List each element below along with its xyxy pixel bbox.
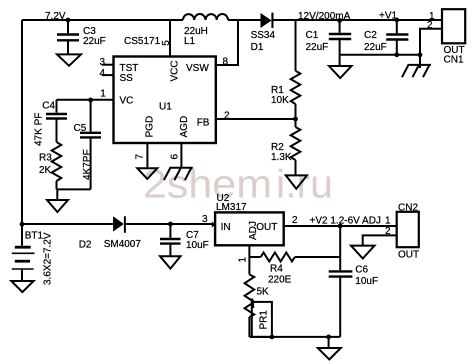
wire rail L1 to D1 <box>228 19 261 21</box>
wire AGD pin6 stub <box>180 143 182 168</box>
wire VC pin1 <box>57 99 114 101</box>
capacitor C7 plates <box>160 238 181 240</box>
ground under PGD <box>137 168 157 179</box>
capacitor C3 leads <box>67 20 69 33</box>
node 7.2V/C3 <box>66 18 71 23</box>
capacitor C4 leads <box>56 100 58 113</box>
wire CN1 pin2 <box>420 29 442 55</box>
svg-text:47K PF: 47K PF <box>34 113 45 146</box>
svg-text:CS5171: CS5171 <box>124 36 161 47</box>
chassis ground CN1 <box>402 55 431 77</box>
svg-text:SM4007: SM4007 <box>104 239 142 250</box>
wire D2 to U2 <box>126 223 215 225</box>
svg-text:7: 7 <box>135 154 146 160</box>
arrow into U2 IN pin <box>212 221 216 227</box>
wire left vertical <box>21 20 23 225</box>
svg-text:R4: R4 <box>270 263 283 274</box>
svg-text:22uF: 22uF <box>306 42 329 53</box>
capacitor C5 plates <box>80 132 101 134</box>
svg-text:3: 3 <box>100 57 106 68</box>
svg-text:22uF: 22uF <box>364 42 387 53</box>
svg-text:+V2 1.2-6V ADJ: +V2 1.2-6V ADJ <box>310 216 381 227</box>
wire bottom rail C1-C2-CN1pin2 <box>340 54 420 56</box>
capacitor C7 leads <box>169 224 171 238</box>
resistor R2 <box>291 127 301 160</box>
node C2 bottom <box>394 52 399 57</box>
wire VSW pin8 branch <box>216 20 238 65</box>
node C7 <box>168 222 173 227</box>
node 12V/C1 <box>337 18 342 23</box>
capacitor C3 plates <box>46 34 408 277</box>
svg-text:C2: C2 <box>364 30 377 41</box>
capacitor C2 leads <box>396 20 398 33</box>
svg-text:D2: D2 <box>79 240 92 251</box>
inductor L1 <box>183 14 228 20</box>
svg-text:FB: FB <box>197 117 210 128</box>
svg-text:VCC: VCC <box>170 60 181 81</box>
ground stem under R3/C5 <box>56 189 58 200</box>
capacitor C1 plates <box>329 33 351 35</box>
svg-text:+V1: +V1 <box>379 11 398 22</box>
svg-text:C1: C1 <box>306 30 319 41</box>
svg-text:OUT: OUT <box>398 250 419 261</box>
svg-text:BT1: BT1 <box>25 230 44 241</box>
svg-text:5K: 5K <box>257 287 270 298</box>
resistor R4 <box>261 253 295 262</box>
svg-text:1: 1 <box>385 216 391 227</box>
capacitor C5 leads <box>90 100 92 132</box>
ground under C3 <box>57 54 81 65</box>
svg-text:VC: VC <box>120 96 134 107</box>
wire C6 top lead <box>339 226 341 270</box>
ground bottom <box>318 348 341 360</box>
resistor R1 <box>291 71 301 104</box>
svg-text:VSW: VSW <box>186 63 209 74</box>
svg-text:6: 6 <box>170 154 181 160</box>
diode D1 <box>113 13 273 233</box>
node FB/R1/R2 <box>293 117 298 122</box>
node +V2/C6 <box>338 224 343 229</box>
svg-text:2: 2 <box>427 20 433 31</box>
svg-text:L1: L1 <box>184 36 196 47</box>
wire R3 bottom lead <box>56 181 58 189</box>
svg-text:5: 5 <box>161 40 172 46</box>
node CN1 pin2 gnd <box>418 52 423 57</box>
node +V1/C2 <box>394 18 399 23</box>
svg-text:CN1: CN1 <box>444 55 464 66</box>
IC U2 box <box>215 212 284 245</box>
svg-text:U1: U1 <box>159 101 172 112</box>
wire ADJ pin1 stub <box>248 245 250 257</box>
svg-text:8: 8 <box>223 57 229 68</box>
wire bottom R3-C5 <box>57 188 91 190</box>
svg-text:1: 1 <box>238 257 249 263</box>
ground under C7 <box>160 256 181 268</box>
svg-text:22uF: 22uF <box>83 36 106 47</box>
svg-text:AGD: AGD <box>179 116 190 138</box>
pin stub 3 TST <box>102 64 114 66</box>
svg-text:1: 1 <box>100 89 106 100</box>
svg-text:CN2: CN2 <box>398 202 418 213</box>
wire PR1 top lead <box>248 257 250 275</box>
svg-text:C5: C5 <box>74 123 87 134</box>
wire PGD pin7 stub <box>146 143 148 168</box>
ground under C1 <box>329 66 352 78</box>
wire rail D1 to CN1 <box>272 19 442 21</box>
connector CN2 box <box>397 212 419 247</box>
svg-text:PGD: PGD <box>145 116 156 138</box>
capacitor C4 plates <box>46 113 67 115</box>
capacitor C2 plates <box>386 33 408 35</box>
svg-text:7.2V: 7.2V <box>45 11 66 22</box>
wire PR1 bottom lead <box>248 317 250 337</box>
svg-text:LM317: LM317 <box>216 202 247 213</box>
wire R1 top lead <box>295 20 297 71</box>
diode D2 <box>113 216 124 231</box>
wire FB pin2 <box>216 118 296 120</box>
ground stem bottom <box>328 337 330 348</box>
svg-text:2: 2 <box>292 215 298 226</box>
ground under CN2 pin2 <box>351 246 375 259</box>
wire top rail left <box>22 19 183 21</box>
ground under R3 <box>47 200 68 212</box>
svg-text:R3: R3 <box>39 153 52 164</box>
resistor R3 <box>52 142 62 181</box>
svg-text:C4: C4 <box>42 101 55 112</box>
svg-text:D1: D1 <box>251 42 264 53</box>
wire battery to D2 <box>22 223 114 225</box>
svg-text:10uF: 10uF <box>186 240 209 251</box>
potentiometer PR1 box <box>252 302 272 337</box>
svg-text:12V/200mA: 12V/200mA <box>298 11 351 22</box>
potentiometer PR1 wiper tick <box>252 299 253 309</box>
wire R2 top lead <box>295 119 297 127</box>
svg-text:2: 2 <box>224 111 230 122</box>
wire CN2 pin2 <box>363 235 397 245</box>
svg-text:SS: SS <box>120 73 134 84</box>
svg-text:4K7PF: 4K7PF <box>82 149 93 180</box>
node bottom gnd <box>326 335 331 340</box>
svg-text:4: 4 <box>100 68 106 79</box>
svg-text:2K: 2K <box>39 165 52 176</box>
node PR1 bottom <box>270 335 275 340</box>
svg-text:3.6X2=7.2V: 3.6X2=7.2V <box>43 232 54 285</box>
capacitor C6 plates <box>329 270 353 272</box>
wire C6 bottom lead <box>339 278 341 337</box>
svg-text:i.ru: i.ru <box>276 163 333 207</box>
svg-text:10uF: 10uF <box>355 276 378 287</box>
node VC/C5 <box>88 98 93 103</box>
svg-text:PR1: PR1 <box>259 310 270 330</box>
svg-text:2: 2 <box>385 226 391 237</box>
ground under R2 <box>286 175 307 188</box>
wire bottom rail PR1 to C6 <box>249 336 340 338</box>
IC U1 box <box>114 57 216 144</box>
battery BT1 stem bottom <box>21 270 23 281</box>
svg-text:10K: 10K <box>271 95 289 106</box>
svg-text:OUT: OUT <box>256 222 277 233</box>
resistor R4 leads <box>249 256 260 258</box>
battery BT1 stem top <box>21 225 23 246</box>
chassis ground AGD <box>164 168 193 180</box>
connector CN1 box <box>442 9 465 43</box>
wire R1 bottom lead <box>295 104 297 119</box>
svg-text:1.3K: 1.3K <box>271 152 292 163</box>
svg-text:220E: 220E <box>268 275 292 286</box>
node BT1/D2 <box>20 222 25 227</box>
svg-text:SS34: SS34 <box>251 30 276 41</box>
capacitor C1 leads <box>339 20 341 33</box>
wire VCC drop pin5 <box>169 20 171 57</box>
ground under BT1 <box>11 281 33 292</box>
svg-text:IN: IN <box>221 222 231 233</box>
svg-text:2shem: 2shem <box>143 163 272 207</box>
wire R2 bottom lead <box>295 160 297 175</box>
svg-text:C6: C6 <box>355 264 368 275</box>
pin stub 4 SS <box>102 74 114 76</box>
battery BT1 plates <box>12 247 35 269</box>
svg-text:3: 3 <box>202 214 208 225</box>
potentiometer PR1 resistor <box>245 275 255 318</box>
wire U2 OUT to CN2 <box>284 225 397 227</box>
